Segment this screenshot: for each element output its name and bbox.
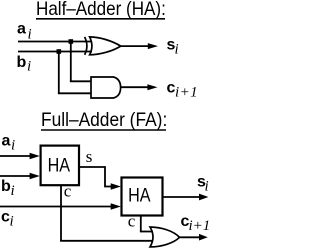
half-adder box HA1 <box>41 146 79 186</box>
wire b_i branch to AND bottom input <box>58 92 92 94</box>
svg-text:b: b <box>17 54 27 71</box>
arrowhead to c_i+1 <box>199 234 208 241</box>
wire AND output <box>121 86 149 88</box>
output label c_i+1 (full-adder) <box>181 213 211 234</box>
svg-text:c: c <box>64 182 72 201</box>
input label a_i (half-adder) <box>17 21 32 43</box>
svg-text:Half–Adder (HA):: Half–Adder (HA): <box>36 0 166 19</box>
wire a_i horizontal <box>18 41 92 43</box>
half-adder box HA2 <box>122 178 163 216</box>
wire b_i into HA1 <box>0 175 34 177</box>
wire HA1 s output <box>80 167 115 187</box>
wire XOR output <box>121 45 149 47</box>
input label b_i (full-adder) <box>1 178 15 199</box>
svg-text:i: i <box>175 42 179 58</box>
title Full-Adder (FA): <box>41 109 167 130</box>
wire HA1 c output down <box>60 186 62 241</box>
OR gate U3 <box>150 227 180 247</box>
wire b_i horizontal <box>18 51 92 53</box>
wire HA2 c output down <box>140 215 142 232</box>
svg-text:b: b <box>1 178 11 195</box>
output label s_i (half-adder) <box>167 37 179 58</box>
svg-text:i: i <box>28 27 32 43</box>
wire HA2 c output to OR gate <box>140 231 153 233</box>
AND gate U2 <box>91 77 121 98</box>
svg-text:i: i <box>11 183 15 199</box>
junction dot on b_i <box>57 49 62 54</box>
svg-text:s: s <box>86 147 93 166</box>
svg-text:i+1: i+1 <box>175 84 198 100</box>
output label c_i+1 (half-adder) <box>167 79 199 100</box>
wire OR output <box>180 236 201 238</box>
wire c_i into HA2 <box>0 206 115 208</box>
svg-text:i: i <box>11 137 15 153</box>
svg-text:i: i <box>10 214 14 230</box>
junction dot on a_i <box>69 39 74 44</box>
wire HA1 c output to OR gate <box>60 240 152 242</box>
svg-text:a: a <box>17 21 26 38</box>
svg-text:i+1: i+1 <box>189 218 211 234</box>
arrowhead s into HA2 <box>111 183 121 190</box>
arrowhead c_i into HA2 <box>111 203 121 210</box>
svg-text:Full–Adder (FA):: Full–Adder (FA): <box>41 109 167 130</box>
XOR gate U1 <box>85 37 121 55</box>
wire a_i into HA1 <box>0 155 34 157</box>
arrowhead b_i into HA1 <box>30 173 40 180</box>
svg-text:HA: HA <box>48 154 71 176</box>
output label s_i (full-adder) <box>197 173 209 194</box>
input label b_i (half-adder) <box>17 54 32 75</box>
wire a_i branch to AND top input <box>70 80 92 82</box>
input label a_i (full-adder) <box>2 132 16 153</box>
svg-text:HA: HA <box>128 184 151 206</box>
arrowhead a_i into HA1 <box>30 153 40 160</box>
wire a_i branch vertical <box>70 42 72 82</box>
wire HA2 s_i output <box>164 196 201 198</box>
input label c_i (full-adder) <box>1 209 14 230</box>
svg-text:i: i <box>205 178 209 194</box>
wire b_i branch vertical <box>58 52 60 94</box>
svg-text:a: a <box>2 132 11 149</box>
arrowhead to s_i <box>199 194 208 201</box>
arrowhead to s_i <box>148 43 158 49</box>
title Half-Adder (HA): <box>36 0 166 19</box>
svg-text:i: i <box>27 59 31 75</box>
svg-text:c: c <box>128 212 136 231</box>
arrowhead to c_i+1 <box>147 84 157 90</box>
